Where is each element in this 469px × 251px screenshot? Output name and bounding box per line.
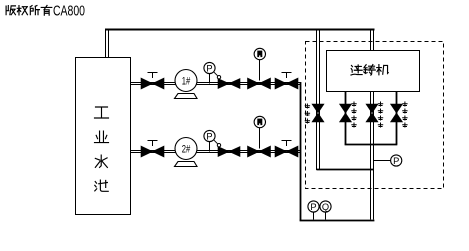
flow gauge Q (bottom return) — [320, 201, 331, 212]
svg-text:P: P — [206, 131, 212, 141]
pipe: branch column 3 below caster — [396, 92, 398, 145]
pump 1# — [175, 70, 197, 92]
pipe: branch column 1 below caster — [345, 92, 347, 145]
valve: branch 1 valve — [340, 104, 352, 122]
label: tiny text right of branch 1 valve — [352, 102, 356, 106]
pipe: branch header — [345, 144, 398, 146]
machine label 连铸机 — [351, 65, 362, 75]
check valve (row 1) — [218, 79, 240, 89]
valve: row 2 suction gate valve — [141, 146, 164, 157]
svg-text:Q: Q — [322, 202, 329, 212]
svg-text:CA800: CA800 — [53, 4, 85, 20]
valve: row 1 suction gate valve — [141, 78, 164, 89]
svg-text:P: P — [310, 202, 316, 212]
pressure gauge P (row 1 discharge) — [209, 73, 211, 84]
valve: branch 2 valve — [366, 104, 378, 122]
pipe: middle column below caster (double line) — [371, 92, 374, 220]
pipe: gauge branch — [374, 160, 391, 162]
pipe: right drop to caster (double line) — [371, 31, 374, 51]
flow meter (row 2) — [259, 123, 261, 149]
svg-text:P: P — [206, 63, 212, 73]
pipe: left bypass column (double line) — [317, 31, 320, 171]
pipe: bypass elbow to middle column — [317, 169, 374, 171]
copyright text 版权所有 — [6, 6, 9, 15]
pipe: left return header — [300, 82, 302, 221]
machine: continuous caster box — [327, 51, 420, 92]
svg-text:P: P — [393, 156, 399, 166]
dashed enclosure (casting machine area) — [306, 42, 444, 189]
pump 2# — [175, 138, 197, 160]
check valve (row 2) — [218, 147, 240, 157]
svg-text:2#: 2# — [182, 143, 191, 155]
pressure gauge P (row 2 discharge) — [209, 141, 211, 152]
valve: branch 3 valve — [391, 104, 403, 122]
flow meter (row 1) — [259, 55, 261, 81]
label: tiny text left of bypass valve — [305, 104, 309, 108]
tank: industrial water pool — [76, 58, 131, 215]
label: tiny text right of branch 2 valve — [378, 102, 382, 106]
valve: row 1 header gate valve — [275, 78, 298, 89]
tank label 工业水池 (vertical) — [95, 107, 109, 118]
pipe: bottom return line — [300, 220, 375, 222]
svg-text:1#: 1# — [182, 75, 191, 87]
pressure gauge P (bottom return) — [308, 201, 319, 212]
pipe: pump row 2 suction/discharge (double line) — [130, 151, 301, 153]
pressure gauge P (return branch) — [391, 155, 402, 166]
valve: bypass column valve — [312, 104, 324, 122]
label: tiny text right of branch 3 valve — [403, 102, 407, 106]
pipe: pump row 1 suction/discharge (double line) — [130, 83, 301, 85]
valve: row 2 middle valve — [248, 146, 271, 157]
valve: row 2 header gate valve — [275, 146, 298, 157]
pipe: pool top riser (double line) — [106, 30, 109, 57]
pipe: top main supply line — [105, 29, 375, 31]
valve: row 1 middle valve — [248, 78, 271, 89]
